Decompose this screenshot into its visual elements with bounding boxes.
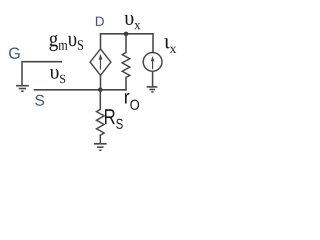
ground gate (16, 86, 29, 92)
label RS (105, 109, 123, 129)
node S label (35, 95, 44, 106)
label gm vS (50, 35, 84, 51)
node D label (96, 17, 104, 26)
wire RS top lead (99, 90, 101, 110)
label ix (164, 38, 176, 53)
wire diamond bottom lead (100, 75, 102, 90)
ground ix (147, 87, 158, 92)
wire gate (22, 62, 61, 85)
junction drain node (124, 32, 129, 37)
wire rO top lead (125, 34, 127, 53)
current source ix (143, 53, 162, 72)
wire drain top (101, 33, 154, 35)
wire diamond top lead (100, 34, 102, 49)
wire ix top lead (152, 34, 154, 53)
dependent source gmvS U1 (90, 49, 111, 75)
resistor rO (122, 53, 130, 78)
resistor RS (97, 109, 105, 135)
wire source (35, 89, 127, 91)
junction source node (98, 88, 103, 93)
label vS (50, 69, 65, 83)
wire rO bottom lead (125, 78, 127, 90)
ground RS (94, 144, 107, 150)
wire ix bottom lead (152, 71, 154, 86)
node G label (9, 48, 20, 59)
label rO (125, 93, 139, 110)
label vx (125, 15, 141, 30)
wire RS bottom lead (99, 135, 101, 143)
